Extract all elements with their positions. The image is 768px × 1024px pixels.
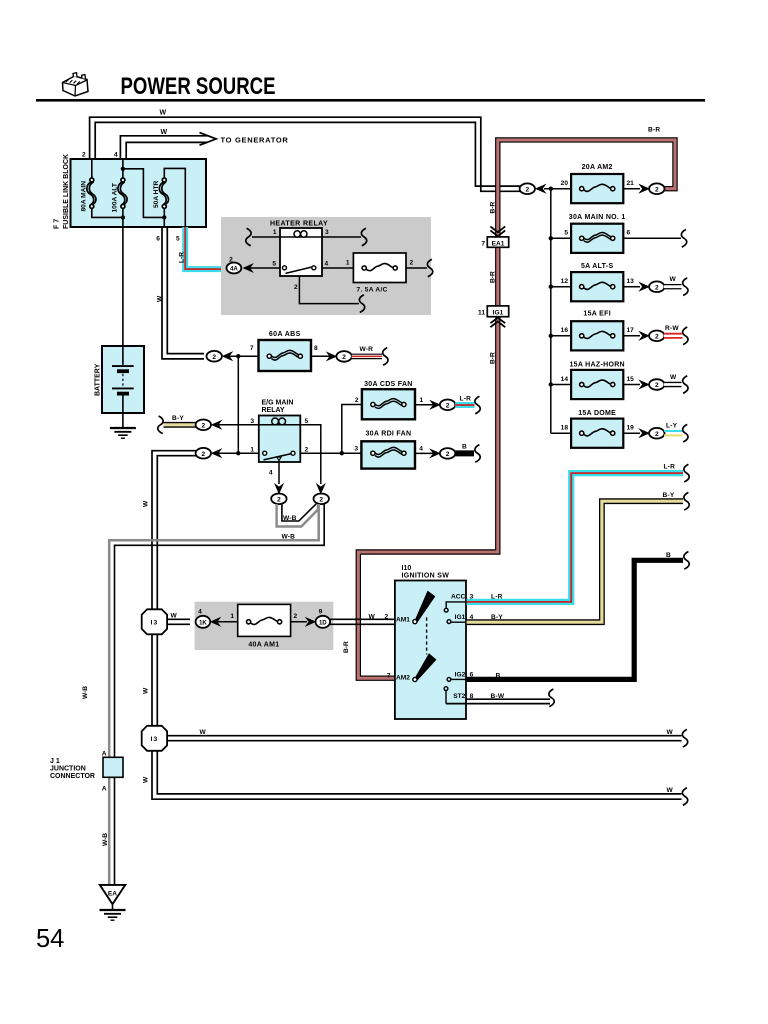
junction dot AM2 row	[549, 187, 553, 191]
arrowhead into 20A AM2 right oval	[639, 184, 649, 193]
svg-text:54: 54	[36, 925, 64, 953]
connector oval 1K	[196, 616, 211, 628]
svg-text:21: 21	[627, 180, 635, 187]
svg-text:W: W	[143, 776, 150, 783]
connector oval after DOME	[649, 428, 664, 439]
svg-text:2: 2	[410, 260, 414, 267]
wire W pin6 down to 60A ABS connector (double line)	[162, 227, 204, 359]
svg-text:I10: I10	[402, 565, 412, 572]
svg-text:16: 16	[561, 327, 569, 334]
svg-text:B: B	[666, 552, 671, 559]
arrowhead into CDS oval	[430, 401, 440, 410]
svg-text:W: W	[369, 613, 376, 620]
20A AM2 fuse element	[580, 184, 615, 191]
svg-text:7: 7	[250, 345, 254, 352]
ACC contact	[444, 608, 448, 612]
arrowhead into RDI oval	[430, 449, 440, 458]
svg-text:15A EFI: 15A EFI	[583, 310, 611, 317]
svg-text:W: W	[157, 295, 164, 302]
break after EFI R-W	[683, 327, 688, 345]
svg-text:ACC: ACC	[451, 593, 466, 600]
E/G relay pin4 wire down	[278, 461, 280, 484]
connector oval below pin5	[314, 494, 329, 505]
svg-text:EA1: EA1	[492, 240, 505, 247]
wire W-B short link from pin4 oval	[277, 504, 318, 527]
fusible link 80A MAIN	[87, 178, 96, 208]
15A DOME fuse element	[580, 429, 615, 436]
wire L-R after CDS	[455, 402, 474, 408]
svg-text:5: 5	[176, 235, 180, 242]
svg-text:BATTERY: BATTERY	[94, 363, 101, 396]
15A HAZ-HORN fuse box	[571, 370, 623, 399]
battery ground wire	[122, 413, 124, 427]
break after 30A MAIN NO.1	[681, 230, 686, 248]
svg-text:20: 20	[561, 180, 569, 187]
svg-text:14: 14	[561, 376, 569, 383]
octagon I3 lower	[142, 726, 167, 751]
junction dot pin4 node	[121, 167, 125, 171]
double chevron above EA1	[490, 226, 505, 236]
battery symbol	[112, 346, 134, 413]
break after DOME L-Y	[683, 424, 688, 442]
svg-text:17: 17	[627, 327, 635, 334]
junction dot at pin1 row	[236, 451, 240, 455]
junction dot pin2 row	[340, 451, 344, 455]
60A ABS fuse element	[267, 350, 302, 360]
fusible link 100A ALT	[118, 178, 127, 208]
wire B from IG2	[467, 560, 683, 679]
wire B-W from ST2	[446, 699, 550, 703]
arrowhead into left ABS oval	[223, 352, 233, 361]
svg-text:L-R: L-R	[179, 252, 186, 263]
svg-text:4A: 4A	[230, 267, 238, 273]
arrowhead into EFI oval	[639, 332, 649, 341]
break after ALT-S W	[683, 278, 688, 296]
break at end of run2	[682, 788, 687, 806]
wire W 1D to ignition switch	[330, 619, 396, 624]
svg-text:20A AM2: 20A AM2	[582, 164, 613, 171]
svg-text:B-W: B-W	[491, 693, 505, 700]
arrowhead into DOME oval	[639, 429, 649, 438]
svg-text:IG1: IG1	[493, 310, 504, 317]
svg-text:W: W	[670, 374, 677, 381]
svg-text:B-Y: B-Y	[491, 614, 503, 621]
battery icon (header logo)	[63, 73, 89, 96]
IG2 contact	[447, 678, 451, 682]
arrowhead down to pin5 oval	[317, 484, 326, 494]
svg-text:30A RDI FAN: 30A RDI FAN	[365, 430, 411, 437]
svg-text:8: 8	[314, 345, 318, 352]
wire heater relay pin4 to 7.5A fuse	[321, 267, 354, 269]
ignition AM1 contact	[413, 620, 417, 624]
svg-text:L-R: L-R	[491, 593, 503, 600]
arrowhead into HAZ oval	[639, 380, 649, 389]
wire W from fusible link pin 2 to 20A AM2 (double line)	[90, 117, 521, 191]
ST2 contact	[444, 687, 448, 691]
connector oval left of ABS	[207, 351, 222, 362]
arrowhead into E/G pin3 oval	[212, 421, 222, 430]
svg-text:ST2: ST2	[453, 693, 465, 700]
svg-text:1: 1	[346, 260, 350, 267]
40A AM1 gray panel	[195, 602, 334, 650]
svg-text:7. 5A A/C: 7. 5A A/C	[357, 286, 388, 293]
RDI fuse element	[371, 447, 406, 457]
wire W after ALT-S	[664, 284, 683, 289]
ignition AM1 blade	[415, 591, 435, 623]
wire W-B long run from pin5 oval to left side	[109, 504, 324, 885]
wire L-Y after DOME	[664, 431, 683, 435]
break at end of run1	[682, 729, 687, 747]
svg-text:6: 6	[627, 230, 631, 237]
ignition switch box	[395, 581, 466, 720]
wire W from E/G pin1 oval down left side (double line)	[152, 451, 196, 616]
wire E/G pin5 to lower oval	[300, 425, 321, 484]
svg-text:2: 2	[82, 152, 86, 159]
connector oval left of 20A AM2	[520, 183, 535, 194]
svg-text:W: W	[160, 110, 167, 117]
wire W into 20A AM2 oval (from fusible link) continues	[544, 188, 572, 190]
svg-text:11: 11	[478, 310, 485, 317]
connector oval below pin4	[271, 494, 286, 505]
svg-text:50A HTR: 50A HTR	[153, 181, 160, 208]
svg-text:1: 1	[250, 447, 254, 454]
heater relay coil	[280, 231, 322, 237]
wire W between octagons and run2 corner	[152, 634, 682, 799]
connector oval after CDS	[440, 400, 455, 411]
junction connector J1 box	[103, 757, 123, 777]
svg-text:FUSIBLE LINK BLOCK: FUSIBLE LINK BLOCK	[63, 154, 70, 229]
wire 15A DOME row (bus corner)	[551, 432, 572, 434]
break after CDS L-R	[475, 396, 480, 414]
svg-text:9: 9	[319, 609, 323, 616]
svg-text:1: 1	[230, 613, 234, 620]
svg-text:RELAY: RELAY	[262, 407, 285, 414]
fusible link block F7 box	[71, 159, 207, 227]
svg-text:F 7: F 7	[54, 219, 61, 229]
CDS fuse element	[371, 399, 406, 409]
svg-text:40A AM1: 40A AM1	[248, 642, 279, 649]
heater relay gray panel	[221, 217, 431, 315]
svg-text:IG2: IG2	[455, 672, 466, 679]
svg-text:W-B: W-B	[82, 686, 89, 699]
svg-text:5: 5	[305, 418, 309, 425]
svg-text:W: W	[670, 276, 677, 283]
ground wire below EA	[112, 904, 114, 909]
svg-text:1K: 1K	[199, 620, 207, 626]
svg-text:B-R: B-R	[343, 641, 350, 653]
svg-text:3: 3	[354, 446, 358, 453]
wire W after HAZ	[664, 382, 683, 387]
svg-text:30A CDS FAN: 30A CDS FAN	[364, 381, 413, 388]
connector 4A oval	[227, 263, 242, 274]
connector oval right of ABS	[336, 351, 351, 362]
svg-text:I3: I3	[151, 736, 159, 743]
svg-text:30A MAIN NO. 1: 30A MAIN NO. 1	[569, 214, 626, 221]
svg-text:W: W	[200, 729, 207, 736]
octagon I3 upper	[142, 609, 167, 634]
header rule	[36, 99, 705, 102]
svg-text:6: 6	[156, 235, 160, 242]
break after RDI B	[475, 445, 480, 463]
svg-text:B-R: B-R	[489, 202, 496, 214]
svg-text:7: 7	[481, 240, 485, 247]
connector oval at E/G pin1	[196, 448, 211, 459]
wire heater relay pin3 to break	[321, 236, 361, 238]
svg-text:4: 4	[269, 469, 273, 476]
30A CDS FAN fuse box	[362, 389, 415, 419]
wire from 100A ALT to battery	[122, 227, 124, 346]
pin 2 (inside left) is above; dashed mechanical link	[426, 618, 428, 655]
junction dot 100A ALT bottom	[121, 215, 125, 219]
connector oval right of 20A AM2	[649, 183, 664, 194]
break after ACC L-R	[684, 464, 689, 482]
junction dot EFI row	[549, 334, 553, 338]
ST2 terminal lead	[445, 690, 447, 703]
40A AM1 fuse element	[247, 617, 282, 624]
svg-text:15: 15	[627, 376, 635, 383]
heater relay box	[280, 228, 322, 276]
15A EFI fuse element	[580, 331, 615, 338]
wire 15A EFI row	[551, 335, 572, 337]
svg-text:E/G MAIN: E/G MAIN	[262, 400, 294, 407]
junction dot at ABS row	[236, 354, 240, 358]
svg-text:2: 2	[305, 447, 309, 454]
svg-text:IG1: IG1	[455, 614, 466, 621]
30A MAIN NO.1 fuse element	[580, 232, 615, 242]
svg-text:W: W	[143, 687, 150, 694]
wire arrow to E/G relay pin3	[218, 424, 259, 426]
svg-text:4: 4	[114, 152, 118, 159]
wire B-R main run (20A AM2 to ignition AM2)	[358, 140, 675, 678]
svg-text:L-R: L-R	[460, 396, 472, 403]
wire 30A MAIN NO.1 row	[551, 237, 572, 239]
svg-text:L-R: L-R	[664, 464, 676, 471]
svg-text:80A MAIN: 80A MAIN	[81, 181, 88, 212]
wire CDS to oval	[415, 404, 433, 406]
wire W from fusible link pin 4 to generator (double line)	[120, 136, 207, 160]
svg-text:W-R: W-R	[360, 346, 374, 353]
wire L-R from ACC	[467, 473, 683, 602]
connector oval after ALT-S	[649, 281, 664, 292]
connector oval after HAZ	[649, 379, 664, 390]
svg-text:B-Y: B-Y	[663, 492, 675, 499]
svg-text:2: 2	[294, 613, 298, 620]
svg-text:HEATER RELAY: HEATER RELAY	[270, 220, 328, 227]
15A EFI fuse box	[571, 321, 623, 350]
svg-text:5: 5	[564, 230, 568, 237]
ground triangle EA	[100, 885, 126, 904]
wire RDI to oval	[415, 452, 433, 454]
wire W run1 from octagon2	[165, 736, 682, 741]
svg-text:15A HAZ-HORN: 15A HAZ-HORN	[569, 361, 624, 368]
ignition AM2 contact	[413, 677, 417, 681]
svg-text:2: 2	[355, 397, 359, 404]
connector oval after EFI	[649, 331, 664, 342]
7.5A A/C fuse box	[353, 253, 406, 283]
wire heater relay pin2 drop to break	[299, 276, 359, 304]
wire heater relay pin5 row	[250, 267, 281, 269]
svg-text:100A ALT: 100A ALT	[112, 183, 119, 212]
svg-text:I3: I3	[151, 620, 159, 627]
junction dot HAZ row	[549, 382, 553, 386]
svg-text:W: W	[667, 787, 674, 794]
ground symbol EA	[100, 910, 126, 920]
svg-text:W-B: W-B	[282, 534, 296, 541]
junction dot 50A HTR bottom	[162, 215, 166, 219]
svg-text:CONNECTOR: CONNECTOR	[50, 773, 95, 780]
connector IG1 box	[487, 306, 508, 317]
svg-text:J 1: J 1	[50, 758, 60, 765]
break after ST2 B-W	[549, 689, 554, 707]
wire fuse to 1D	[290, 621, 307, 623]
wire L-R pin5 down to heater relay connector	[185, 227, 227, 269]
internal wiring of fusible link block	[92, 159, 186, 227]
svg-text:5: 5	[272, 260, 276, 267]
svg-text:1: 1	[273, 229, 277, 236]
wire 15A HAZ-HORN row	[551, 384, 572, 386]
IG1 contact	[447, 620, 451, 624]
arrowhead into ALT-S oval	[639, 282, 649, 291]
svg-text:AM2: AM2	[396, 674, 410, 681]
IG2 terminal lead	[449, 678, 467, 680]
break left of B-Y	[158, 416, 163, 434]
svg-text:19: 19	[627, 425, 635, 432]
fuse bus vertical line	[550, 189, 552, 434]
svg-text:1: 1	[420, 397, 424, 404]
15A HAZ-HORN fuse element	[580, 380, 615, 387]
svg-text:60A ABS: 60A ABS	[269, 331, 301, 338]
svg-text:B-Y: B-Y	[172, 415, 184, 422]
break at heater pin2	[359, 295, 364, 313]
svg-text:W: W	[161, 129, 168, 136]
svg-text:L-Y: L-Y	[666, 422, 678, 429]
break after IG2 B	[684, 552, 689, 570]
svg-text:B-R: B-R	[648, 127, 660, 134]
break at heater pin3	[361, 228, 366, 246]
svg-text:EA: EA	[108, 891, 117, 898]
svg-text:JUNCTION: JUNCTION	[50, 765, 86, 772]
arrowhead down to pin4 oval	[275, 484, 284, 494]
connector oval after RDI	[440, 448, 455, 459]
svg-text:W: W	[143, 500, 150, 507]
IG1 terminal lead	[449, 621, 467, 623]
svg-text:4: 4	[325, 260, 329, 267]
svg-text:W-B: W-B	[283, 515, 297, 522]
svg-text:12: 12	[561, 278, 569, 285]
wire 60A ABS right to oval	[310, 355, 338, 357]
60A ABS fuse box	[259, 340, 312, 371]
break at heater pin1	[246, 228, 251, 246]
svg-text:2: 2	[229, 257, 233, 264]
svg-text:4: 4	[419, 446, 423, 453]
wire B after RDI	[455, 450, 474, 456]
break after IG1 B-Y	[684, 492, 689, 510]
15A DOME fuse box	[571, 419, 623, 448]
svg-text:A: A	[102, 785, 107, 792]
battery ground symbol	[110, 428, 136, 438]
arrowhead into 1D	[306, 618, 316, 627]
svg-text:3: 3	[250, 418, 254, 425]
svg-text:3: 3	[325, 229, 329, 236]
ACC terminal lead	[446, 602, 466, 608]
svg-text:4: 4	[198, 609, 202, 616]
wire W-R from ABS oval	[352, 354, 382, 360]
junction dot ALT-S row	[549, 285, 553, 289]
wire 7.5A fuse to break	[405, 267, 427, 269]
wire 60A ABS left	[228, 355, 259, 357]
7.5A A/C fuse element	[362, 264, 397, 271]
wire 20A AM2 right to oval	[623, 188, 641, 190]
wire up to CDS fan	[342, 405, 363, 454]
break after HAZ W	[683, 376, 688, 394]
svg-text:TO GENERATOR: TO GENERATOR	[221, 136, 289, 145]
arrowhead into 4A	[243, 264, 253, 273]
svg-text:5A ALT-S: 5A ALT-S	[581, 263, 614, 270]
connector oval at E/G pin3	[196, 420, 211, 431]
double chevron below IG1	[490, 318, 505, 327]
break after W-R	[383, 348, 388, 366]
svg-text:A: A	[102, 750, 107, 757]
30A RDI FAN fuse box	[361, 441, 415, 468]
E/G relay switch	[263, 451, 295, 460]
svg-text:7: 7	[387, 673, 391, 680]
svg-text:1D: 1D	[319, 620, 327, 626]
ignition AM2 blade	[415, 653, 436, 680]
E/G main relay box	[259, 416, 301, 463]
svg-text:POWER SOURCE: POWER SOURCE	[121, 73, 276, 100]
wire 5A ALT-S row	[551, 286, 572, 288]
svg-text:W: W	[171, 612, 178, 619]
label J 1 JUNCTION CONNECTOR	[50, 758, 95, 780]
svg-text:W: W	[667, 729, 674, 736]
wire W octagon I3 to 1K oval	[164, 619, 190, 624]
arrowhead into 1K	[211, 618, 221, 627]
svg-text:IGNITION SW: IGNITION SW	[402, 573, 450, 580]
arrowhead into 20A AM2 left oval	[536, 184, 546, 193]
arrowhead into right ABS oval	[327, 352, 337, 361]
wire heater relay pin1 to break	[252, 236, 281, 238]
junction dot MAIN row	[549, 236, 553, 240]
fusible link 50A HTR	[159, 178, 168, 208]
E/G relay coil	[259, 418, 301, 425]
5A ALT-S fuse element	[580, 282, 615, 289]
30A MAIN NO.1 fuse box	[571, 224, 623, 253]
40A AM1 fuse white box	[238, 604, 291, 636]
break right of 7.5A fuse	[427, 259, 432, 277]
svg-text:W-B: W-B	[102, 833, 109, 846]
wire R-W after EFI	[664, 333, 683, 339]
wire 1K arrow to fuse	[217, 621, 238, 623]
svg-text:R-W: R-W	[665, 325, 679, 332]
wire arrow to E/G relay pin1	[218, 452, 259, 454]
battery box	[102, 346, 144, 413]
arrowhead into E/G pin1 oval	[212, 449, 222, 458]
connector EA1 box	[487, 237, 508, 247]
wire B-Y from IG1	[467, 501, 683, 622]
wire B-Y to E/G relay pin3 oval	[164, 422, 198, 428]
svg-text:AM1: AM1	[396, 616, 410, 623]
vertical wire ABS junction to E/G relay pin1	[237, 356, 239, 453]
svg-text:B-R: B-R	[489, 271, 496, 283]
heater relay switch	[283, 266, 316, 274]
svg-text:B-R: B-R	[489, 352, 496, 364]
svg-text:2: 2	[385, 613, 389, 620]
svg-text:13: 13	[627, 278, 635, 285]
svg-text:B: B	[496, 673, 501, 680]
wire E/G pin2 row to RDI fan	[300, 452, 362, 454]
open arrow to generator	[200, 133, 217, 146]
label F 7 FUSIBLE LINK BLOCK	[54, 154, 71, 229]
